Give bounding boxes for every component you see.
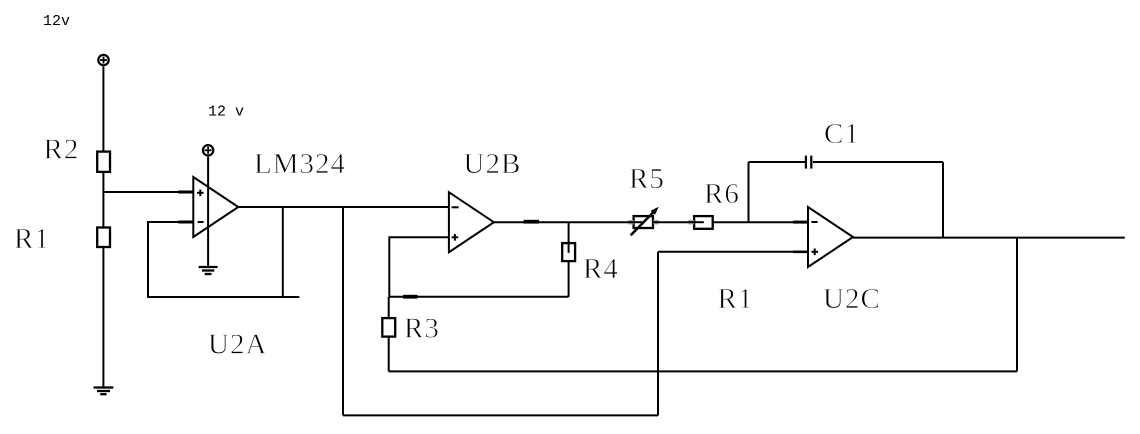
plus symbol U2B (452, 234, 459, 241)
wire C1 top left (749, 161, 806, 163)
wire R2 to R1 (102, 172, 104, 228)
resistor R1 (97, 228, 110, 248)
ground U2A (199, 267, 218, 274)
wire feedback row from R3 (389, 370, 1017, 372)
pin stub U2A + input (178, 191, 193, 194)
svg-text:R5: R5 (629, 163, 665, 195)
wire R6 to U2C - input (713, 221, 808, 223)
wire U2B + input left (389, 237, 449, 297)
resistor R6 (694, 216, 713, 229)
wire C1 top right (813, 161, 943, 163)
wire R1 to ground (102, 247, 104, 388)
ground (94, 388, 114, 395)
svg-text:U2C: U2C (823, 283, 881, 315)
potentiometer R5 arrowhead (651, 207, 659, 215)
wire inside R6 (694, 221, 704, 223)
wire R3 top (388, 297, 390, 318)
resistor R2 (97, 152, 110, 172)
gray pin marks near R5 and R6 (628, 220, 694, 225)
potentiometer R5 arrow (631, 212, 654, 236)
wire divider node to U2A + input (103, 191, 193, 193)
minus symbol U2B (452, 206, 459, 208)
svg-text:R3: R3 (404, 313, 440, 345)
wire U2C output (853, 237, 1125, 239)
wire C1 riser right (942, 162, 944, 238)
wire stub inside R5 (634, 221, 644, 223)
pin stub U2A - input (178, 221, 193, 224)
svg-text:12v: 12v (43, 13, 70, 30)
minus symbol U2C (811, 221, 817, 223)
junction dash on node row (403, 295, 418, 299)
resistor R4 (562, 243, 575, 261)
svg-text:12 v: 12 v (208, 103, 244, 120)
wire C1 riser left (748, 162, 750, 222)
svg-text:R2: R2 (44, 133, 80, 165)
plus symbol U2C (811, 249, 818, 256)
wire riser output feedback (1016, 238, 1018, 372)
svg-text:U2B: U2B (464, 148, 522, 180)
power symbol 12v supply (98, 55, 108, 65)
wire node row below U2B (389, 296, 568, 298)
resistor R3 (382, 318, 395, 337)
wire bottom run (343, 414, 658, 416)
op-amp U2B (449, 192, 494, 252)
wire U2B output (494, 221, 634, 223)
svg-text:R4: R4 (583, 253, 619, 285)
wire branch down from U2A output (342, 207, 344, 415)
svg-text:U2A: U2A (208, 328, 267, 360)
wire power through U2A to ground (207, 157, 209, 267)
plus symbol U2A (197, 190, 204, 197)
pin stub U2C + input (793, 251, 808, 254)
svg-text:R1: R1 (14, 223, 50, 255)
pin stub U2C - input (793, 221, 808, 224)
wire to U2C + input (658, 251, 808, 253)
svg-text:C1: C1 (824, 118, 860, 150)
potentiometer R5 body (634, 216, 653, 228)
wire supply to R2 (102, 67, 104, 152)
wire riser to U2C + input (657, 252, 659, 416)
junction dash on U2B output (524, 220, 539, 224)
op-amp U2C (808, 207, 853, 267)
wire R4 top (568, 222, 570, 253)
svg-text:R6: R6 (704, 178, 740, 210)
wire R5 to R6 (653, 221, 694, 223)
power symbol 12 v for U2A (203, 145, 213, 155)
wire R3 bottom (388, 337, 390, 372)
minus symbol U2A (198, 221, 204, 223)
wire U2A feedback left (148, 222, 299, 297)
capacitor C1 (805, 156, 813, 169)
wire U2A feedback riser (282, 207, 284, 297)
wire R4 bottom (568, 261, 570, 297)
op-amp U2A (193, 177, 238, 237)
svg-text:R1: R1 (718, 283, 754, 315)
wire U2A output to U2B - input (238, 206, 449, 208)
svg-text:LM324: LM324 (254, 148, 346, 180)
